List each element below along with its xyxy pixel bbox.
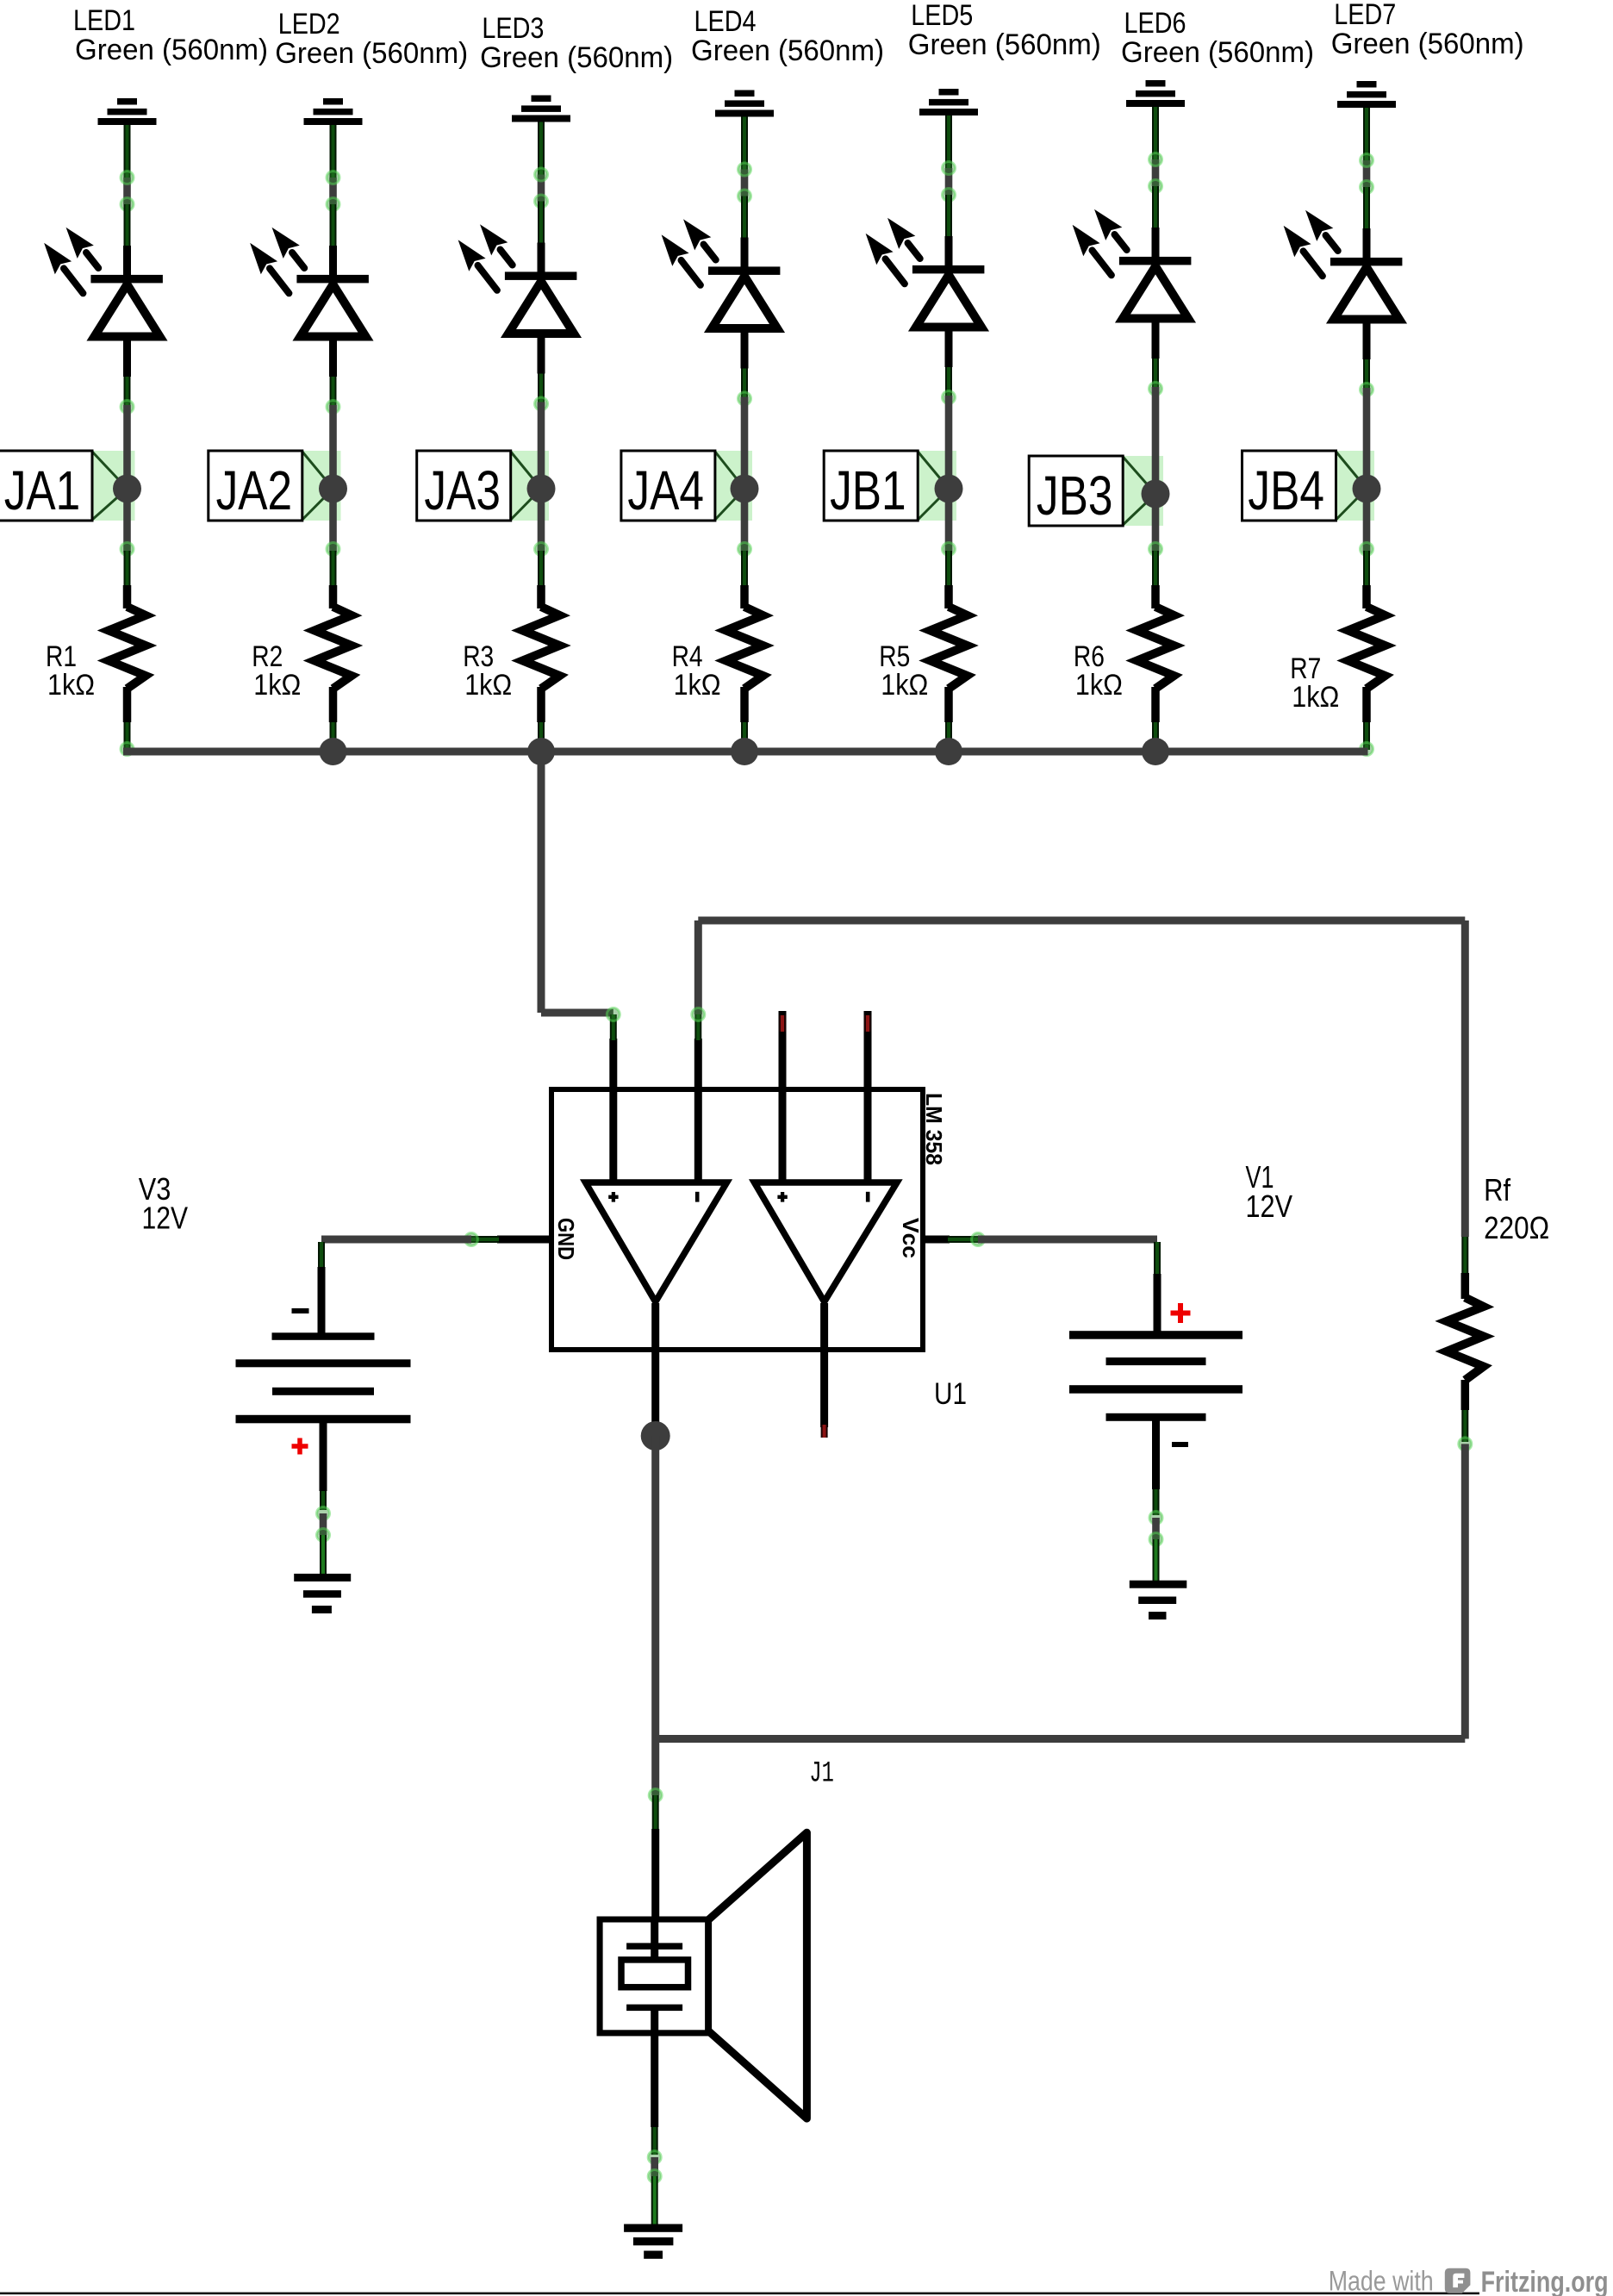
node (junction dot JB3) bbox=[1142, 480, 1170, 508]
resistor R3 bbox=[523, 607, 560, 689]
node (bus junction R4) bbox=[731, 738, 758, 765]
wire bbox=[943, 115, 956, 266]
wire bbox=[1361, 108, 1373, 259]
wire bbox=[327, 687, 339, 756]
svg-text:Green (560nm): Green (560nm) bbox=[480, 41, 673, 74]
wire bbox=[738, 489, 751, 608]
svg-text:1kΩ: 1kΩ bbox=[881, 669, 928, 702]
node (bus junction R6) bbox=[1142, 738, 1169, 765]
bottom border bbox=[0, 2293, 1479, 2295]
wire bbox=[943, 687, 956, 756]
wire bbox=[1361, 489, 1373, 608]
svg-text:LED3: LED3 bbox=[482, 12, 544, 45]
node JA4 bbox=[621, 451, 752, 521]
wire bbox=[738, 117, 751, 268]
ground (top of LED4) bbox=[715, 90, 774, 117]
svg-text:JA1: JA1 bbox=[4, 459, 81, 521]
ground (top of LED2) bbox=[304, 98, 363, 125]
pin 1 (op-amp A +) bbox=[607, 1008, 620, 1182]
svg-text:1kΩ: 1kΩ bbox=[1292, 681, 1339, 714]
wire bbox=[943, 327, 956, 489]
label LED1 bbox=[73, 4, 268, 66]
wire bbox=[1149, 318, 1162, 494]
svg-text:JA3: JA3 bbox=[424, 459, 501, 521]
svg-text:Green (560nm): Green (560nm) bbox=[1121, 36, 1314, 69]
wire bbox=[1149, 687, 1162, 756]
wire bbox=[121, 687, 134, 756]
wire U1 Vcc to V1 bbox=[978, 1236, 1157, 1244]
ground (top of LED1) bbox=[98, 98, 157, 125]
wire bbox=[1361, 687, 1373, 756]
label R4 bbox=[672, 640, 721, 702]
label R6 bbox=[1074, 640, 1123, 702]
wire Rf to bottom rail bbox=[1459, 1438, 1472, 1739]
svg-text:Vcc: Vcc bbox=[898, 1218, 924, 1258]
wire bbox=[738, 687, 751, 756]
pin 2 (op-amp A -) bbox=[692, 1008, 705, 1182]
pin 4 (op-amp B -, unconnected) bbox=[864, 1011, 872, 1182]
node JB1 bbox=[824, 451, 956, 521]
svg-text:LED1: LED1 bbox=[73, 4, 135, 37]
svg-text:1kΩ: 1kΩ bbox=[464, 669, 512, 702]
node (output junction) bbox=[641, 1421, 670, 1451]
LED LED4 bbox=[663, 221, 781, 329]
wire bbox=[121, 336, 134, 489]
svg-text:1kΩ: 1kΩ bbox=[47, 669, 95, 702]
svg-text:LED4: LED4 bbox=[694, 5, 757, 38]
label R3 bbox=[463, 640, 512, 702]
node JA2 bbox=[209, 451, 341, 521]
label LED4 bbox=[691, 5, 884, 67]
svg-text:JB1: JB1 bbox=[830, 459, 906, 521]
wire bbox=[327, 336, 339, 489]
wire bbox=[535, 687, 548, 756]
resistor R7 bbox=[1348, 607, 1386, 689]
svg-text:JA2: JA2 bbox=[216, 459, 293, 521]
wire bbox=[1361, 319, 1373, 489]
ground (speaker) bbox=[624, 2224, 682, 2259]
wire bbox=[327, 125, 339, 276]
ground (top of LED6) bbox=[1126, 80, 1185, 107]
wire bbox=[535, 122, 548, 273]
battery V1 bbox=[1069, 1242, 1242, 1515]
label LED3 bbox=[480, 12, 673, 74]
battery V3 bbox=[236, 1242, 411, 1510]
svg-text:12V: 12V bbox=[142, 1201, 189, 1236]
resistor R6 bbox=[1137, 607, 1174, 689]
svg-text:Green (560nm): Green (560nm) bbox=[908, 28, 1101, 61]
svg-text:GND: GND bbox=[553, 1218, 579, 1260]
label LED5 bbox=[908, 0, 1101, 61]
wire U1 output A bbox=[651, 1303, 659, 1432]
svg-text:Rf: Rf bbox=[1484, 1172, 1511, 1207]
svg-text:Made with: Made with bbox=[1329, 2266, 1434, 2296]
node JB3 bbox=[1029, 456, 1163, 527]
wire bus to U1 pin 1 bbox=[541, 748, 613, 1013]
Fritzing watermark bbox=[1329, 2266, 1609, 2296]
node JA1 bbox=[0, 451, 135, 521]
ground (top of LED5) bbox=[919, 89, 978, 115]
label LED2 bbox=[275, 8, 468, 70]
label R1 bbox=[46, 640, 95, 702]
wire bbox=[1149, 494, 1162, 608]
label V3 12V bbox=[139, 1171, 188, 1236]
pin GND of U1 bbox=[465, 1233, 552, 1246]
label R5 bbox=[879, 640, 928, 702]
resistor R2 bbox=[315, 607, 352, 689]
ground (V3) bbox=[294, 1574, 351, 1613]
pin output B (unconnected) bbox=[820, 1303, 828, 1438]
op-amp U1 B triangle bbox=[755, 1182, 898, 1302]
op-amp U1 A triangle bbox=[586, 1182, 727, 1302]
svg-text:Green (560nm): Green (560nm) bbox=[275, 37, 468, 70]
label LED6 bbox=[1121, 7, 1314, 69]
wire bbox=[1149, 107, 1162, 258]
svg-text:12V: 12V bbox=[1246, 1189, 1293, 1224]
svg-text:1kΩ: 1kΩ bbox=[1075, 669, 1123, 702]
LED LED3 bbox=[459, 226, 577, 334]
node (junction dot JA4) bbox=[731, 475, 759, 503]
label R7 bbox=[1290, 652, 1339, 714]
svg-text:Green (560nm): Green (560nm) bbox=[691, 34, 884, 67]
label Rf 220 ohm bbox=[1484, 1172, 1549, 1245]
speaker J1 bbox=[600, 1832, 806, 2118]
LED LED7 bbox=[1285, 211, 1403, 320]
wire bbox=[535, 334, 548, 490]
svg-text:JA4: JA4 bbox=[627, 459, 704, 521]
wire bbox=[121, 489, 134, 608]
node (junction dot JA3) bbox=[527, 475, 556, 503]
node JA3 bbox=[417, 451, 549, 521]
ground (V1) bbox=[1130, 1581, 1187, 1619]
node (junction dot JB1) bbox=[935, 475, 963, 503]
node (bus junction R3) bbox=[527, 738, 555, 765]
wire V3 to ground bbox=[317, 1507, 330, 1575]
svg-text:LED2: LED2 bbox=[278, 8, 340, 41]
resistor R1 bbox=[109, 607, 146, 689]
svg-text:Green (560nm): Green (560nm) bbox=[1331, 28, 1524, 60]
wire bbox=[535, 489, 548, 608]
LED LED6 bbox=[1074, 210, 1192, 319]
svg-text:Fritzing.org: Fritzing.org bbox=[1481, 2266, 1609, 2296]
svg-text:LED6: LED6 bbox=[1124, 7, 1186, 40]
node (junction dot JB4) bbox=[1353, 475, 1381, 503]
wire bbox=[121, 125, 134, 276]
svg-text:JB4: JB4 bbox=[1248, 459, 1324, 521]
op-amp U1 package bbox=[551, 1089, 923, 1350]
wire U1 pin 2 to Rf bbox=[698, 920, 1465, 1237]
svg-text:LED5: LED5 bbox=[911, 0, 973, 32]
svg-text:220Ω: 220Ω bbox=[1484, 1210, 1549, 1245]
wire U1 GND to V3 bbox=[321, 1236, 471, 1244]
wire bbox=[738, 328, 751, 490]
LED LED1 bbox=[45, 228, 163, 337]
node (bus junction R2) bbox=[320, 738, 347, 765]
ground (top of LED3) bbox=[512, 96, 570, 122]
svg-text:Green (560nm): Green (560nm) bbox=[75, 34, 268, 66]
wire bus (LED cathode rail) bbox=[123, 748, 1368, 756]
wire output to speaker / bottom rail bbox=[649, 1436, 1465, 1946]
wire bbox=[943, 489, 956, 608]
svg-text:1kΩ: 1kΩ bbox=[253, 669, 301, 702]
resistor R4 bbox=[726, 607, 763, 689]
ground (top of LED7) bbox=[1337, 81, 1396, 108]
pin Vcc of U1 bbox=[923, 1233, 985, 1246]
svg-text:U1: U1 bbox=[934, 1377, 967, 1411]
node (junction dot JA1) bbox=[113, 475, 141, 503]
svg-text:1kΩ: 1kΩ bbox=[674, 669, 721, 702]
wire V1 to ground bbox=[1149, 1512, 1162, 1582]
wire bbox=[327, 489, 339, 608]
resistor Rf bbox=[1447, 1237, 1484, 1442]
svg-text:JB3: JB3 bbox=[1037, 465, 1113, 527]
svg-text:LM 358: LM 358 bbox=[921, 1093, 947, 1165]
node (junction dot JA2) bbox=[319, 475, 347, 503]
svg-text:LED7: LED7 bbox=[1334, 0, 1396, 31]
resistor R5 bbox=[931, 607, 968, 689]
node (bus junction R5) bbox=[935, 738, 962, 765]
label V1 12V bbox=[1246, 1159, 1293, 1224]
LED LED5 bbox=[867, 219, 985, 328]
pin 3 (op-amp B +, unconnected) bbox=[779, 1011, 787, 1182]
label R2 bbox=[252, 640, 301, 702]
node JB4 bbox=[1242, 451, 1375, 521]
label LED7 bbox=[1331, 0, 1524, 60]
LED LED2 bbox=[251, 228, 369, 337]
svg-text:J1: J1 bbox=[809, 1758, 834, 1791]
wire speaker to ground bbox=[648, 2033, 661, 2225]
